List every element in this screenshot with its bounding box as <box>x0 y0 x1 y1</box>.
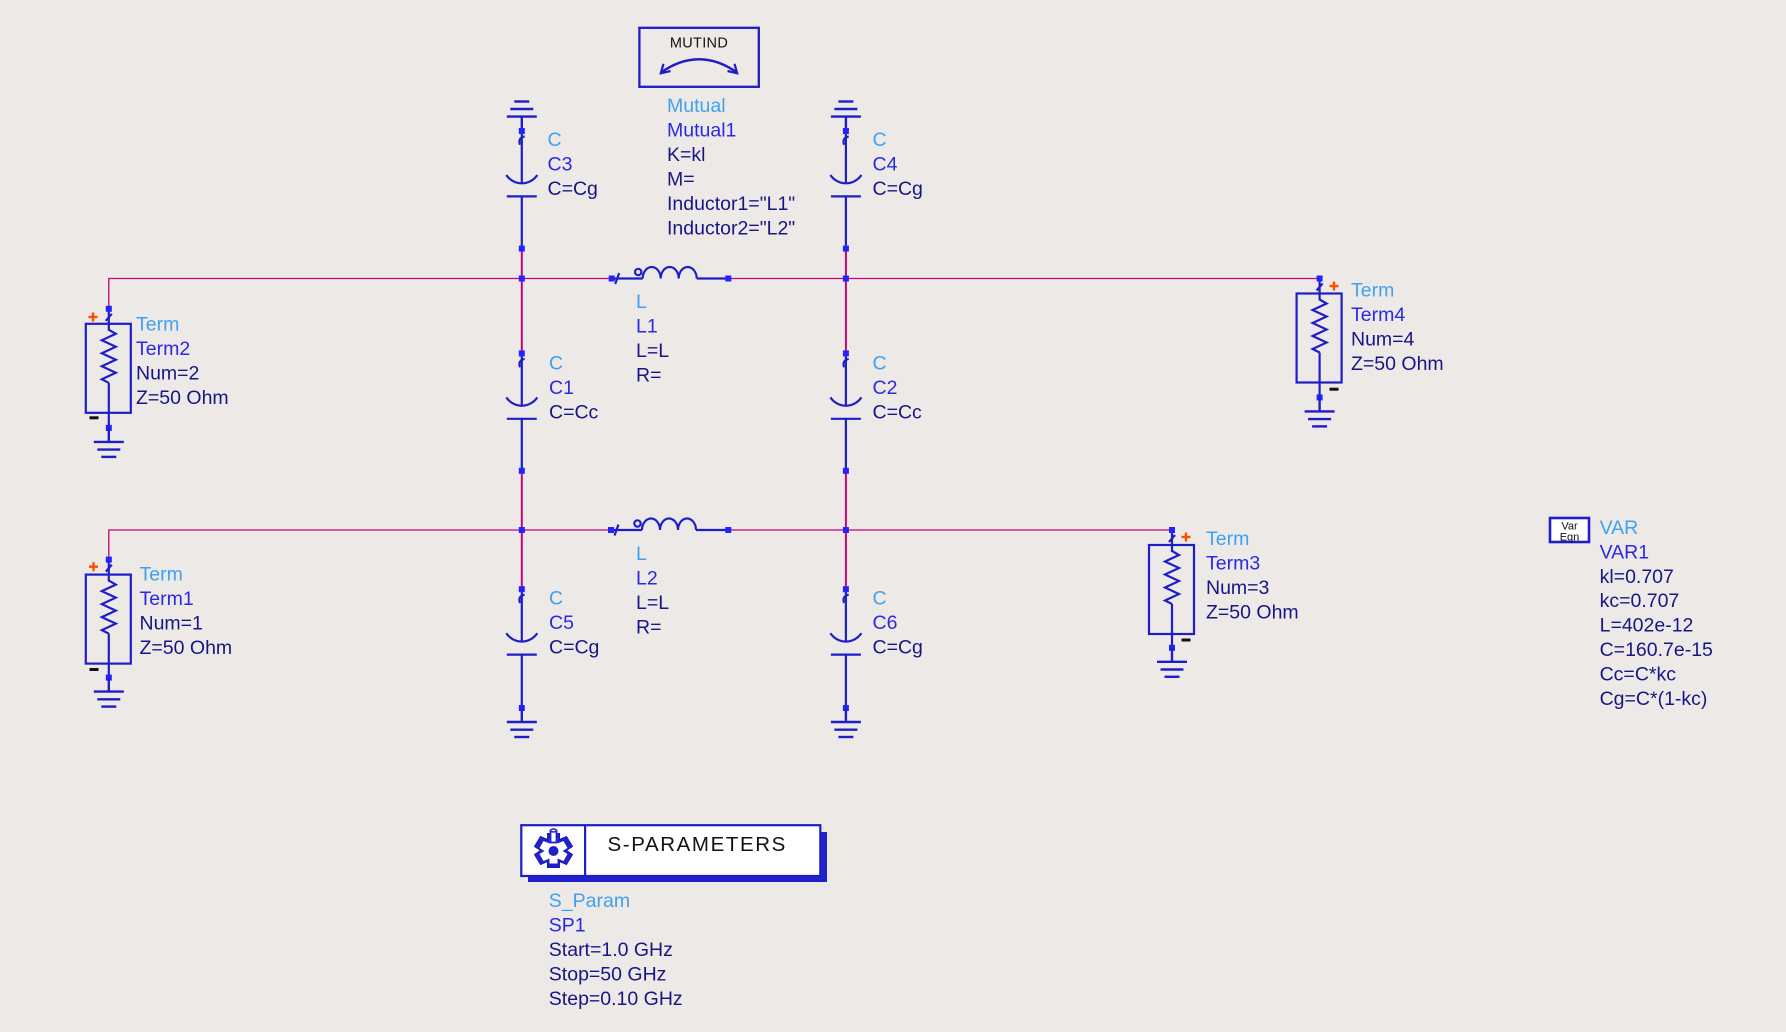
svg-text:L=L: L=L <box>636 340 669 362</box>
capacitor C1 <box>506 350 537 473</box>
svg-text:C=Cc: C=Cc <box>873 402 923 424</box>
C4 value labels <box>873 129 923 200</box>
ground Term1 <box>94 678 124 707</box>
svg-text:Term4: Term4 <box>1351 304 1405 326</box>
svg-text:R=: R= <box>636 617 661 639</box>
Term1 value labels <box>140 564 233 660</box>
wire row1 right segment <box>846 278 1320 280</box>
VAR equation box <box>1550 518 1589 544</box>
wire row1 middle segment <box>728 278 846 280</box>
svg-text:C2: C2 <box>873 377 898 399</box>
terminal Term1 <box>86 557 131 681</box>
svg-text:K=kl: K=kl <box>667 144 705 166</box>
C1 value labels <box>549 353 599 424</box>
svg-text:C=Cg: C=Cg <box>873 637 923 659</box>
capacitor C3 <box>506 128 537 252</box>
svg-text:C: C <box>873 353 887 375</box>
svg-text:SP1: SP1 <box>549 915 586 937</box>
SP1 value labels <box>549 890 683 1010</box>
svg-text:L=L: L=L <box>636 592 669 614</box>
svg-text:R=: R= <box>636 365 661 387</box>
svg-text:C: C <box>548 129 562 151</box>
svg-text:Term2: Term2 <box>136 338 190 360</box>
C2 value labels <box>873 353 923 424</box>
mutual inductance MUTIND box <box>639 28 758 87</box>
svg-text:Z=50 Ohm: Z=50 Ohm <box>1351 353 1444 375</box>
svg-text:Start=1.0 GHz: Start=1.0 GHz <box>549 939 673 961</box>
svg-text:Term: Term <box>136 314 179 336</box>
wire row2 right segment <box>846 529 1172 531</box>
C5 value labels <box>549 588 599 659</box>
svg-text:Inductor1="L1": Inductor1="L1" <box>667 193 795 215</box>
capacitor C6 <box>830 586 861 711</box>
ground C5 bottom <box>507 708 537 737</box>
ground Term4 <box>1305 397 1335 426</box>
wire row1 left segment <box>109 279 612 309</box>
svg-text:L1: L1 <box>636 316 658 338</box>
ground C3 top <box>507 102 537 132</box>
svg-text:C3: C3 <box>548 154 573 176</box>
wire column B lower <box>845 471 847 589</box>
svg-text:S-PARAMETERS: S-PARAMETERS <box>608 833 787 856</box>
wire column B upper <box>845 249 847 354</box>
svg-text:C5: C5 <box>549 612 574 634</box>
svg-text:Num=4: Num=4 <box>1351 329 1415 351</box>
Term3 value labels <box>1206 528 1299 624</box>
junction node B2 <box>843 527 849 533</box>
svg-text:Inductor2="L2": Inductor2="L2" <box>667 217 795 239</box>
S-parameters controller SP1 box <box>521 825 827 882</box>
svg-text:Term1: Term1 <box>140 588 194 610</box>
junction node A2 <box>519 527 525 533</box>
svg-text:C: C <box>549 588 563 610</box>
svg-text:Term3: Term3 <box>1206 553 1260 575</box>
svg-text:C: C <box>549 353 563 375</box>
svg-text:Z=50 Ohm: Z=50 Ohm <box>1206 602 1299 624</box>
ground C4 top <box>831 102 861 132</box>
VAR1 value labels <box>1600 517 1713 710</box>
C6 value labels <box>873 588 923 659</box>
svg-text:C6: C6 <box>873 612 898 634</box>
svg-text:VAR: VAR <box>1600 517 1639 539</box>
svg-text:Term: Term <box>1351 280 1394 302</box>
C3 value labels <box>548 129 598 200</box>
svg-text:kl=0.707: kl=0.707 <box>1600 566 1674 588</box>
svg-text:C4: C4 <box>873 154 898 176</box>
svg-text:Num=2: Num=2 <box>136 363 199 385</box>
svg-text:Num=1: Num=1 <box>140 613 203 635</box>
svg-text:L=402e-12: L=402e-12 <box>1600 615 1694 637</box>
wire row2 left segment <box>109 530 611 560</box>
ground Term2 <box>94 428 124 457</box>
junction node A1 <box>519 276 525 282</box>
capacitor C5 <box>506 586 537 711</box>
svg-text:Mutual1: Mutual1 <box>667 119 736 141</box>
svg-text:C: C <box>873 129 887 151</box>
junction node B1 <box>843 276 849 282</box>
inductor L1 <box>609 267 732 284</box>
svg-text:Cc=C*kc: Cc=C*kc <box>1600 663 1677 685</box>
Mutual1 value labels <box>667 95 795 240</box>
Term4 value labels <box>1351 280 1444 376</box>
ground C6 bottom <box>831 708 861 737</box>
terminal Term2 <box>86 306 131 431</box>
L2 value labels <box>636 543 669 639</box>
svg-text:C=Cg: C=Cg <box>548 178 598 200</box>
S-parameters gear icon <box>535 829 573 868</box>
wire column A lower <box>521 471 523 589</box>
svg-text:C=Cg: C=Cg <box>549 637 599 659</box>
svg-text:Cg=C*(1-kc): Cg=C*(1-kc) <box>1600 688 1708 710</box>
svg-text:M=: M= <box>667 168 695 190</box>
wire column A upper <box>521 249 523 354</box>
svg-text:VAR1: VAR1 <box>1600 541 1650 563</box>
inductor L2 <box>608 519 731 536</box>
svg-text:Eqn: Eqn <box>1560 532 1580 544</box>
svg-text:Z=50 Ohm: Z=50 Ohm <box>140 637 233 659</box>
wire row2 middle segment <box>728 529 846 531</box>
svg-text:C=Cg: C=Cg <box>873 178 923 200</box>
svg-text:kc=0.707: kc=0.707 <box>1600 590 1680 612</box>
svg-text:Z=50 Ohm: Z=50 Ohm <box>136 387 229 409</box>
L1 value labels <box>636 291 669 387</box>
terminal Term4 <box>1297 276 1342 401</box>
capacitor C2 <box>830 350 861 473</box>
svg-text:Term: Term <box>140 564 183 586</box>
svg-text:L2: L2 <box>636 568 658 590</box>
svg-text:L: L <box>636 291 647 313</box>
svg-text:C: C <box>873 588 887 610</box>
svg-text:C=160.7e-15: C=160.7e-15 <box>1600 639 1713 661</box>
svg-text:C1: C1 <box>549 377 574 399</box>
svg-text:Stop=50 GHz: Stop=50 GHz <box>549 964 667 986</box>
svg-text:L: L <box>636 543 647 565</box>
capacitor C4 <box>830 128 861 252</box>
ground Term3 <box>1157 648 1187 677</box>
terminal Term3 <box>1149 527 1194 651</box>
svg-text:Term: Term <box>1206 528 1249 550</box>
svg-text:Mutual: Mutual <box>667 95 726 117</box>
svg-text:Num=3: Num=3 <box>1206 577 1269 599</box>
svg-text:MUTIND: MUTIND <box>670 36 728 52</box>
svg-text:C=Cc: C=Cc <box>549 402 599 424</box>
svg-text:S_Param: S_Param <box>549 890 630 912</box>
svg-text:Step=0.10 GHz: Step=0.10 GHz <box>549 988 683 1010</box>
Term2 value labels <box>136 314 229 410</box>
